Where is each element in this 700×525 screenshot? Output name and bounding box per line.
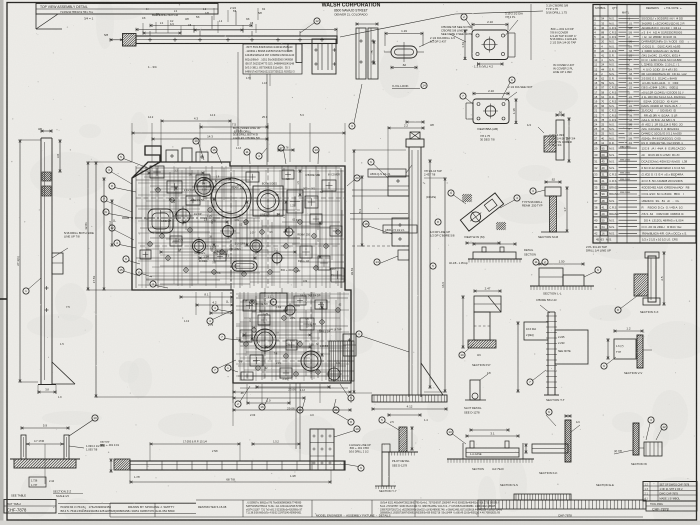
see table note: [11, 494, 26, 498]
notes paragraph 1: [246, 502, 303, 515]
bore C4: [174, 207, 193, 226]
side elevation bar: [372, 132, 447, 402]
square boss with bore: [253, 186, 283, 216]
balloon near centerline: [256, 148, 267, 159]
scan edge shading left: [0, 0, 4, 525]
signature strip: [58, 504, 227, 514]
bore C8: [270, 251, 285, 266]
section labels bottom: [379, 483, 614, 493]
serrated block extension: [329, 341, 354, 381]
dimensions below main view: [180, 292, 351, 417]
left bar dimensions: [16, 127, 94, 382]
section V-V: [601, 327, 652, 375]
top bar tiny dims: [142, 13, 256, 35]
main bore B1: [205, 172, 257, 224]
drawing number box: [4, 500, 56, 514]
bore D2: [298, 348, 324, 374]
section K-K: [524, 409, 580, 475]
bore C7: [248, 238, 265, 255]
balloon 12 top bar: [300, 18, 320, 33]
section P-P: [459, 287, 501, 367]
bore C3: [192, 175, 216, 199]
interior micro texts: [144, 175, 342, 364]
bore C5: [190, 237, 208, 255]
border notch left: [0, 298, 7, 300]
parts list table: [593, 5, 696, 244]
drawing header text: [322, 3, 381, 17]
verticals to bottom bar: [233, 383, 300, 449]
section Z-Z: [10, 415, 105, 498]
view W-W angled detail: [448, 190, 520, 245]
o-ring note: [522, 200, 543, 207]
section L-L: [530, 260, 601, 296]
bore C9: [283, 226, 295, 238]
main plan view outline: [132, 146, 351, 383]
detail A slot view: [370, 29, 455, 89]
rounded pocket: [148, 209, 173, 233]
top bar dimensions: [104, 6, 543, 69]
extra projection lines: [352, 190, 408, 196]
side view upper dims: [388, 120, 434, 176]
scan edge shading bottom: [0, 521, 700, 525]
side bar right dims: [424, 160, 447, 392]
leader vertical top right: [530, 4, 532, 60]
bottom text row: [316, 514, 572, 518]
slot detail: [464, 371, 491, 415]
note drill thru line up: [546, 4, 568, 15]
pilot detail bottom: [379, 417, 418, 468]
detail E channel section: [527, 111, 571, 162]
bottom bar dims: [100, 426, 371, 484]
notes paragraph 2: [380, 502, 503, 515]
left bar side view: [38, 138, 75, 385]
left bar bottom dims: [38, 385, 62, 399]
hole note mid: [430, 219, 455, 269]
tolerance note block: [549, 133, 576, 147]
top bar plan view: [123, 34, 338, 75]
bottom bar plan view: [114, 429, 345, 470]
title block: [643, 482, 697, 512]
note below table: [586, 245, 611, 253]
extra balloons left edge: [101, 167, 140, 276]
keeper block detail: [336, 334, 356, 365]
balloon row extension: [207, 310, 354, 425]
section M-M: [530, 178, 569, 239]
notes block mid-right: [550, 27, 577, 45]
flat bar detail: [449, 242, 548, 265]
top-left reference box: [36, 4, 218, 30]
fixtures on top edge: [166, 148, 208, 162]
notes block mid-right 2: [553, 63, 575, 74]
dimensions above main view: [132, 113, 345, 162]
note block under top bar: [243, 44, 302, 86]
centerline bar to main view: [238, 52, 267, 165]
main view inner wall: [136, 166, 341, 288]
bore C6: [220, 223, 236, 239]
section cut X-X: [122, 218, 231, 303]
drilled pads upper: [140, 166, 344, 282]
top bar extra ticks: [146, 8, 266, 27]
note left of main view top: [233, 126, 261, 140]
section T-T: [516, 298, 588, 402]
section X-X: [615, 252, 666, 314]
detail B cover plate: [441, 12, 523, 69]
small drill holes: [147, 187, 341, 377]
slot S1: [232, 261, 257, 271]
bottom strip frame: [58, 500, 643, 517]
brass todd note: [100, 440, 120, 447]
side bar label box 2: [383, 225, 417, 233]
projection lines to side view: [350, 214, 408, 247]
detail C cover plate: [460, 77, 533, 141]
spring detail section: [614, 417, 667, 466]
main view annotations: [161, 174, 342, 381]
interior dimension mesh: [136, 166, 348, 380]
dimension ladder left of main view: [84, 162, 233, 397]
internal machining lines: [136, 166, 348, 388]
base channel section: [447, 428, 534, 471]
channel pair detail: [349, 22, 378, 129]
bore D1: [251, 326, 279, 354]
interior fine mesh: [138, 166, 349, 381]
bore D4: [283, 303, 297, 317]
drilled pads lower: [240, 296, 327, 380]
side elevation dims: [350, 150, 447, 424]
pilot post lower: [375, 452, 396, 489]
box with balloon in extension: [260, 288, 287, 311]
balloon callouts main view: [103, 138, 360, 413]
bore D3: [326, 366, 342, 382]
small dims above main top: [236, 147, 294, 152]
revision tick strip: [478, 494, 646, 509]
